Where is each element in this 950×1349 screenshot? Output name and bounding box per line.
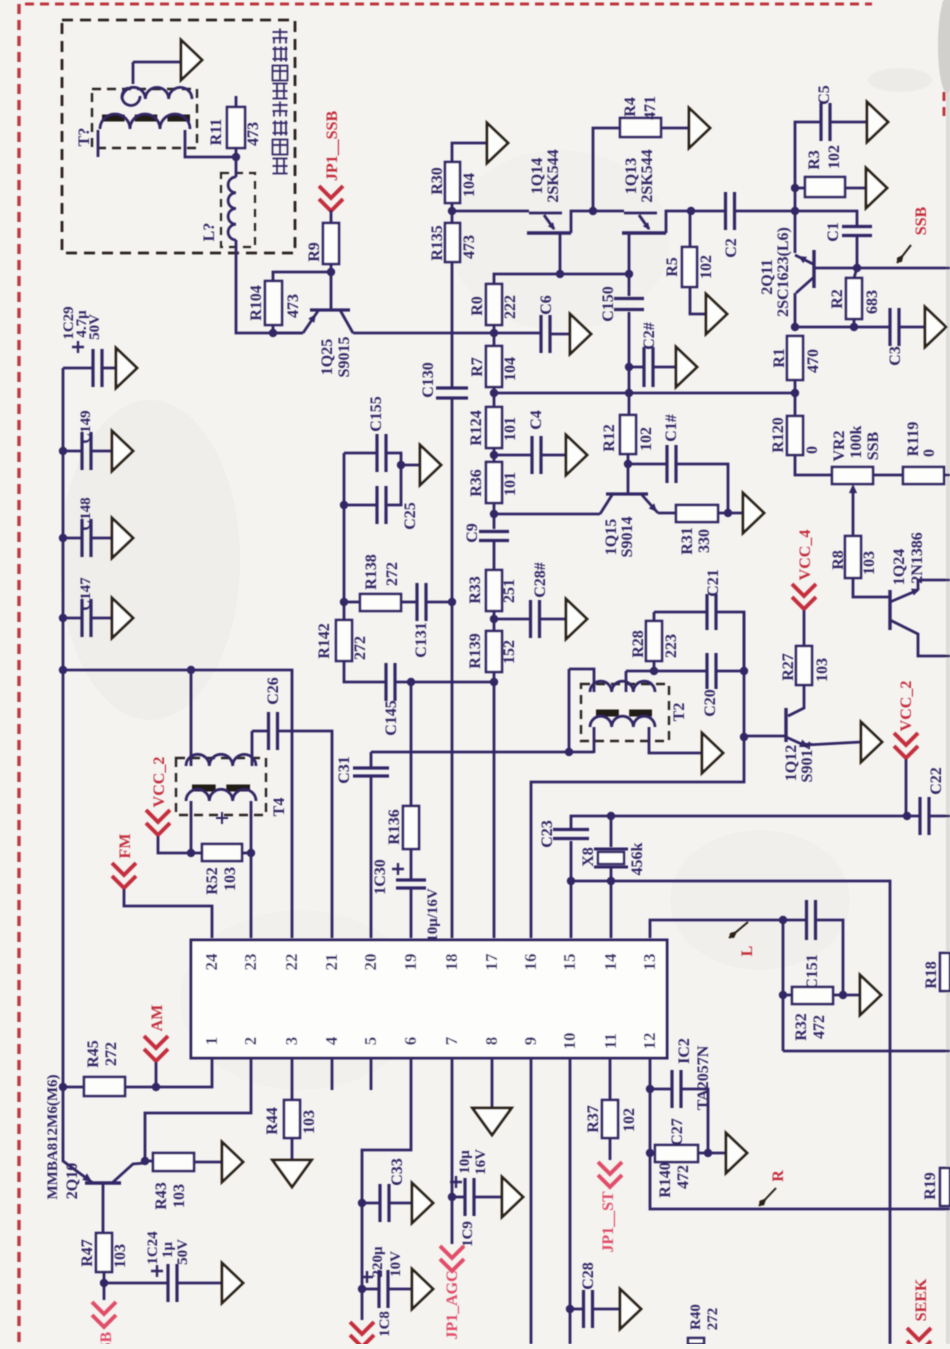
- svg-text:20: 20: [361, 954, 380, 971]
- svg-text:10μ: 10μ: [457, 1150, 473, 1174]
- svg-text:R0: R0: [469, 296, 486, 316]
- ground of T? center tap: [181, 40, 202, 80]
- svg-text:1Q15: 1Q15: [603, 519, 620, 555]
- transformer T2 secondary winding: [590, 716, 655, 727]
- node bus/R45: [59, 1083, 67, 1091]
- svg-text:C27: C27: [669, 1118, 686, 1146]
- svg-text:C9: C9: [464, 523, 481, 543]
- svg-text:272: 272: [705, 1308, 721, 1331]
- wire T? primary right lead: [185, 130, 236, 157]
- svg-text:SSB: SSB: [98, 1331, 115, 1344]
- capacitor C25: [344, 504, 377, 507]
- capacitor C28: [570, 1308, 583, 1311]
- resistor R9: [330, 210, 333, 223]
- node R32 left: [779, 991, 787, 999]
- capacitor C23: [553, 830, 589, 839]
- capacitor C6: [494, 332, 541, 335]
- svg-text:103: 103: [814, 658, 831, 682]
- svg-text:223: 223: [663, 634, 680, 658]
- svg-text:102: 102: [621, 1108, 638, 1132]
- svg-text:R140: R140: [657, 1162, 674, 1198]
- node base rail / R12: [625, 389, 633, 397]
- svg-text:C130: C130: [420, 362, 437, 398]
- svg-text:C148: C148: [78, 497, 94, 530]
- node R136 top: [407, 678, 415, 686]
- svg-text:C31: C31: [336, 756, 353, 784]
- resistor R142: [336, 620, 352, 661]
- resistor R30: [452, 143, 487, 162]
- svg-text:1: 1: [202, 1037, 221, 1046]
- wire gate rail: [452, 210, 529, 213]
- svg-text:SSB: SSB: [913, 206, 930, 235]
- svg-text:102: 102: [698, 255, 715, 279]
- resistor R136: [410, 682, 413, 806]
- svg-text:473: 473: [245, 122, 262, 146]
- svg-text:4: 4: [322, 1036, 341, 1045]
- svg-text:R4: R4: [622, 97, 639, 117]
- ground of R30: [487, 123, 508, 163]
- wire left supply bus: [62, 368, 65, 1087]
- svg-text:R44: R44: [264, 1107, 281, 1135]
- svg-text:R120: R120: [770, 417, 787, 453]
- resistor R31: [658, 512, 676, 515]
- svg-text:C131: C131: [413, 622, 430, 658]
- wire bus to pin22 branch: [63, 670, 292, 938]
- svg-text:C2: C2: [723, 238, 740, 258]
- wire T? center tap to ground: [122, 88, 140, 105]
- node 2Q10 collector: [141, 1157, 149, 1165]
- resistor R3: [795, 187, 805, 190]
- annotation arrow R: [759, 1188, 776, 1206]
- svg-text:152: 152: [501, 640, 518, 664]
- svg-text:14: 14: [601, 953, 620, 971]
- transistor 1Q25 S9015: [310, 308, 350, 311]
- svg-text:101: 101: [502, 417, 519, 441]
- svg-text:471: 471: [642, 96, 659, 120]
- svg-text:2Q11: 2Q11: [759, 259, 776, 295]
- ground of C149: [112, 431, 133, 471]
- node 1Q12 base: [740, 733, 748, 741]
- svg-text:C28#: C28#: [532, 562, 549, 598]
- svg-text:S9015: S9015: [336, 337, 353, 378]
- node R5/C2: [687, 207, 695, 215]
- svg-text:TA2057N: TA2057N: [695, 1045, 712, 1110]
- svg-text:R: R: [770, 1170, 787, 1182]
- wire pin4 stub: [331, 1058, 334, 1090]
- svg-text:23: 23: [241, 954, 260, 971]
- node T2 left rail: [565, 748, 573, 756]
- svg-text:21: 21: [322, 954, 341, 971]
- wiper arrow of VR2: [852, 488, 855, 536]
- wire T? primary left stub: [97, 130, 100, 157]
- wire R36 node to 1Q15 base: [494, 513, 600, 516]
- node R52 left: [187, 849, 195, 857]
- wire T4 bottom leads: [190, 801, 193, 853]
- resistor R5: [689, 211, 692, 247]
- svg-text:2SK544: 2SK544: [545, 149, 562, 202]
- node C131/pin18: [448, 598, 456, 606]
- resistor R119: [903, 467, 944, 484]
- svg-text:473: 473: [285, 294, 302, 318]
- capacitor C21: [654, 611, 706, 614]
- svg-text:1Q24: 1Q24: [891, 549, 908, 585]
- svg-text:C145: C145: [383, 700, 400, 736]
- svg-text:T?: T?: [76, 128, 93, 147]
- node 1C9: [448, 1193, 456, 1201]
- inductor L? dashed box: [221, 173, 255, 247]
- ground of C6: [570, 314, 591, 354]
- svg-text:C20: C20: [702, 689, 719, 717]
- svg-text:R7: R7: [469, 357, 486, 377]
- red dashed page border left: [17, 4, 20, 1344]
- resistor R18: [940, 953, 950, 991]
- svg-text:472: 472: [675, 1165, 692, 1189]
- resistor R43: [145, 1160, 153, 1163]
- svg-text:VR2: VR2: [831, 430, 848, 461]
- ground of 1C24: [222, 1263, 243, 1303]
- wire C130 to pin18: [451, 398, 454, 938]
- transformer T2 core: [596, 710, 652, 717]
- svg-text:8: 8: [482, 1037, 501, 1046]
- svg-text:103: 103: [171, 1184, 188, 1208]
- node R32/C151: [839, 991, 847, 999]
- transistor 1Q24 2N1386: [888, 590, 891, 630]
- wire L? to emitter rail: [236, 240, 303, 333]
- resistor R44: [291, 1058, 294, 1100]
- svg-text:C1#: C1#: [663, 414, 680, 442]
- label 屏蔽盒E部分电路 (pseudo-glyph column): [273, 159, 288, 174]
- transistor 2Q11 2SC1623(L6): [794, 211, 797, 253]
- capacitor C5: [795, 122, 820, 211]
- node X8 bottom: [607, 877, 615, 885]
- svg-text:R139: R139: [467, 633, 484, 669]
- resistor R45: [84, 1077, 125, 1096]
- wire T2 bottom-left lead: [593, 727, 596, 753]
- svg-text:R5: R5: [664, 257, 681, 277]
- capacitor C150: [628, 274, 631, 296]
- svg-text:C150: C150: [600, 286, 617, 322]
- node C23 bottom: [567, 877, 575, 885]
- ground of C5: [867, 102, 888, 142]
- ground of R44 down: [273, 1160, 312, 1187]
- svg-text:220μ: 220μ: [370, 1246, 386, 1278]
- svg-text:473: 473: [461, 235, 478, 259]
- svg-text:C26: C26: [265, 677, 282, 705]
- node bus corner: [59, 666, 67, 674]
- resistor R37: [602, 1100, 618, 1138]
- svg-text:SEEK: SEEK: [913, 1278, 930, 1321]
- svg-text:FM: FM: [117, 834, 134, 859]
- svg-text:X8: X8: [580, 847, 597, 867]
- node C25 left: [340, 501, 348, 509]
- capacitor C147: [63, 617, 82, 620]
- red dashed page border right top: [943, 2, 946, 120]
- red dashed page border top: [25, 3, 872, 6]
- node C20/C21: [740, 667, 748, 675]
- wire pin13 to L out: [650, 920, 783, 938]
- ground of C3: [925, 307, 946, 347]
- node T4 top tap: [187, 666, 195, 674]
- node C151 top: [779, 916, 787, 924]
- resistor R8: [845, 536, 861, 578]
- svg-text:S9014: S9014: [799, 742, 816, 783]
- wire C31 to T2 rail: [371, 751, 569, 754]
- svg-text:100k: 100k: [848, 425, 865, 458]
- resistor R1: [787, 336, 803, 380]
- resistor R52: [191, 852, 202, 855]
- resistor R124: [486, 407, 502, 448]
- svg-text:VCC_2: VCC_2: [151, 757, 168, 808]
- svg-text:102: 102: [826, 145, 843, 169]
- transistor 1Q12 S9014: [784, 708, 787, 742]
- wire C31 branch / pin21: [252, 730, 269, 733]
- svg-text:1C8: 1C8: [377, 1311, 393, 1337]
- wire SSB output: [857, 267, 950, 270]
- capacitor C9: [479, 532, 509, 541]
- svg-text:2SC1623(L6): 2SC1623(L6): [775, 227, 792, 317]
- resistor R7: [486, 346, 502, 387]
- transformer T4 core: [192, 785, 250, 792]
- capacitor C4: [494, 454, 532, 457]
- node R2/C3: [850, 323, 858, 331]
- svg-text:272: 272: [384, 562, 401, 586]
- svg-text:R31: R31: [679, 527, 696, 555]
- svg-text:R9: R9: [306, 242, 323, 262]
- svg-text:6: 6: [401, 1037, 420, 1046]
- svg-text:470: 470: [805, 349, 822, 373]
- node R0/R7/C6: [490, 329, 498, 337]
- svg-text:R30: R30: [429, 167, 446, 195]
- svg-text:R43: R43: [153, 1182, 170, 1210]
- transformer T4 secondary winding: [186, 789, 256, 801]
- node 1C8: [358, 1285, 366, 1293]
- dashed shield box 屏蔽盒E: [62, 20, 295, 253]
- resistor R11: [235, 96, 238, 107]
- svg-text:C28: C28: [580, 1262, 597, 1290]
- wire VR2 to R119: [873, 474, 903, 477]
- node R9/R104: [327, 268, 335, 276]
- node 1Q13 source: [625, 270, 633, 278]
- ground of C28#: [566, 599, 587, 639]
- svg-text:12: 12: [640, 1033, 659, 1050]
- node R1/R120: [791, 389, 799, 397]
- ground of C148: [112, 518, 133, 558]
- node R28/T2/C20: [650, 667, 658, 675]
- svg-text:JP1_AGC: JP1_AGC: [444, 1270, 461, 1339]
- node R104/1Q25 collector: [269, 329, 277, 337]
- svg-text:683: 683: [864, 290, 881, 314]
- ground of 1C8: [412, 1269, 433, 1309]
- svg-text:456k: 456k: [629, 842, 646, 875]
- node R4 tap: [589, 207, 597, 215]
- svg-text:C21: C21: [705, 569, 722, 597]
- svg-text:272: 272: [103, 1042, 120, 1066]
- svg-text:T4: T4: [271, 798, 288, 817]
- svg-text:R19: R19: [922, 1172, 939, 1200]
- svg-text:1Q12: 1Q12: [783, 745, 800, 781]
- svg-text:C23: C23: [539, 820, 556, 848]
- transformer T2 dashed box: [581, 684, 669, 741]
- svg-text:R11: R11: [208, 119, 225, 146]
- ground of C28: [620, 1289, 641, 1329]
- svg-text:1C30: 1C30: [372, 859, 389, 895]
- resistor R32: [782, 920, 785, 1051]
- svg-text:R45: R45: [85, 1040, 102, 1068]
- node R30/R135/gate rail: [448, 207, 456, 215]
- node C27 top: [646, 1085, 654, 1093]
- resistor R0: [486, 284, 502, 325]
- transistor 2Q10 MMBA812M6: [63, 1087, 93, 1183]
- ground of R5: [706, 294, 727, 334]
- wire pin12 chain: [650, 1058, 950, 1209]
- svg-text:2: 2: [241, 1037, 260, 1046]
- capacitor C28#: [494, 618, 530, 621]
- svg-text:102: 102: [638, 427, 655, 451]
- wire C155 left rail: [343, 453, 346, 620]
- capacitor C1: [795, 211, 857, 227]
- IC U-IC2 TA2057N body: [191, 940, 667, 1058]
- svg-text:R47: R47: [79, 1239, 96, 1267]
- ground of R3: [866, 168, 887, 208]
- inductor L?: [235, 157, 238, 177]
- svg-text:10V: 10V: [388, 1251, 404, 1277]
- crystal X8 456k: [610, 816, 613, 847]
- node C148 tap: [59, 534, 67, 542]
- svg-text:C33: C33: [389, 1158, 406, 1186]
- svg-text:C2#: C2#: [641, 322, 658, 350]
- svg-text:103: 103: [112, 1244, 129, 1268]
- transformer T? dashed box: [92, 89, 197, 148]
- svg-text:VCC_2: VCC_2: [898, 681, 915, 732]
- capacitor 1C30: [396, 880, 426, 888]
- ground of R43: [222, 1142, 243, 1182]
- svg-text:JP1__SSB: JP1__SSB: [324, 111, 341, 182]
- capacitor 1C24: [104, 1282, 167, 1285]
- node C147 tap: [59, 614, 67, 622]
- svg-text:1Q13: 1Q13: [623, 158, 640, 194]
- ground of C2#: [676, 347, 697, 387]
- potentiometer VR2 100k SSB: [832, 467, 873, 484]
- annotation arrow L: [729, 922, 748, 938]
- svg-text:SSB: SSB: [865, 431, 882, 460]
- svg-text:VCC_4: VCC_4: [797, 530, 814, 581]
- resistor R138: [344, 601, 360, 604]
- svg-text:0: 0: [921, 449, 938, 457]
- svg-text:IC2: IC2: [676, 1038, 693, 1064]
- wire emitter rail y=333: [273, 332, 303, 335]
- resistor R4: [593, 128, 620, 211]
- svg-text:JP1__ST: JP1__ST: [600, 1191, 617, 1253]
- node base rail tap: [490, 389, 498, 397]
- svg-text:C155: C155: [368, 396, 385, 432]
- wire pin1 to AM: [125, 1058, 212, 1087]
- node X8 top: [607, 812, 615, 820]
- paper mottling: [60, 400, 240, 720]
- capacitor C151: [783, 919, 806, 922]
- resistor R27: [796, 646, 812, 685]
- connector JP1_AGC: [440, 1246, 464, 1271]
- ground of 1Q12 emitter: [861, 722, 882, 762]
- ground of C4: [566, 435, 587, 475]
- capacitor C31: [370, 752, 373, 769]
- svg-text:10: 10: [560, 1033, 579, 1050]
- resistor R140: [650, 1152, 655, 1155]
- wire pin2 riser: [145, 1058, 251, 1161]
- resistor R135: [445, 223, 460, 262]
- svg-text:C147: C147: [78, 577, 94, 611]
- svg-text:L?: L?: [201, 223, 218, 242]
- node R140 left: [646, 1149, 654, 1157]
- wire pin5 stub: [370, 1058, 373, 1090]
- node C155/C25 ground tap: [397, 461, 405, 469]
- node R138 left: [340, 598, 348, 606]
- capacitor C20: [654, 670, 706, 673]
- svg-text:1Q25: 1Q25: [319, 339, 336, 375]
- capacitor C1#: [628, 463, 667, 466]
- wire pin15 riser with C23: [570, 881, 573, 938]
- wire pin10 with C28: [569, 1058, 572, 1344]
- svg-text:R27: R27: [780, 653, 797, 681]
- node R31/C1#: [724, 509, 732, 517]
- node VCC_2 tap: [903, 812, 911, 820]
- svg-text:C5: C5: [816, 85, 833, 105]
- svg-text:R3: R3: [806, 150, 823, 170]
- node 2Q11 collector: [791, 207, 799, 215]
- svg-text:R40: R40: [688, 1304, 704, 1330]
- svg-text:R136: R136: [386, 809, 403, 845]
- node R1 top: [791, 323, 799, 331]
- svg-text:103: 103: [301, 1110, 318, 1134]
- capacitor C131: [417, 583, 426, 621]
- wire R out rail: [783, 1050, 950, 1053]
- annotation arrow SSB: [897, 245, 911, 263]
- svg-text:472: 472: [811, 1015, 828, 1039]
- node C145 rail end: [490, 678, 498, 686]
- ground of 1C29: [116, 348, 137, 388]
- svg-text:R18: R18: [923, 961, 940, 989]
- svg-text:R1: R1: [771, 348, 788, 368]
- svg-text:1C9: 1C9: [460, 1221, 476, 1247]
- svg-text:10μ/16V: 10μ/16V: [425, 888, 441, 942]
- ground of R4: [689, 108, 710, 148]
- svg-text:9: 9: [521, 1037, 540, 1046]
- svg-text:103: 103: [222, 867, 239, 891]
- node R52 right: [247, 849, 255, 857]
- capacitor C2#: [629, 366, 644, 369]
- transformer T? core: [102, 115, 190, 122]
- resistor R2: [854, 268, 857, 278]
- connector JP1__ST: [598, 1162, 622, 1187]
- wire FET source rail: [494, 274, 629, 284]
- wire T4 top-left lead: [190, 670, 193, 766]
- resistor R120: [794, 393, 797, 416]
- svg-text:104: 104: [502, 357, 519, 381]
- wire T2 bottom-right lead to ground: [649, 727, 702, 753]
- capacitor 1C8: [362, 1288, 378, 1291]
- wire R135 to C130: [451, 262, 454, 388]
- FET 1Q13 2SK544: [593, 210, 624, 213]
- svg-text:R8: R8: [830, 550, 847, 570]
- svg-text:7: 7: [442, 1036, 461, 1045]
- wire pin7 chain 1C9: [451, 1058, 454, 1244]
- svg-text:22: 22: [282, 954, 301, 971]
- node R3 tap: [791, 184, 799, 192]
- svg-text:C1: C1: [825, 222, 842, 242]
- node C33: [358, 1199, 366, 1207]
- resistor R36: [486, 462, 502, 503]
- svg-text:103: 103: [861, 551, 878, 575]
- svg-text:1μ: 1μ: [160, 1242, 176, 1259]
